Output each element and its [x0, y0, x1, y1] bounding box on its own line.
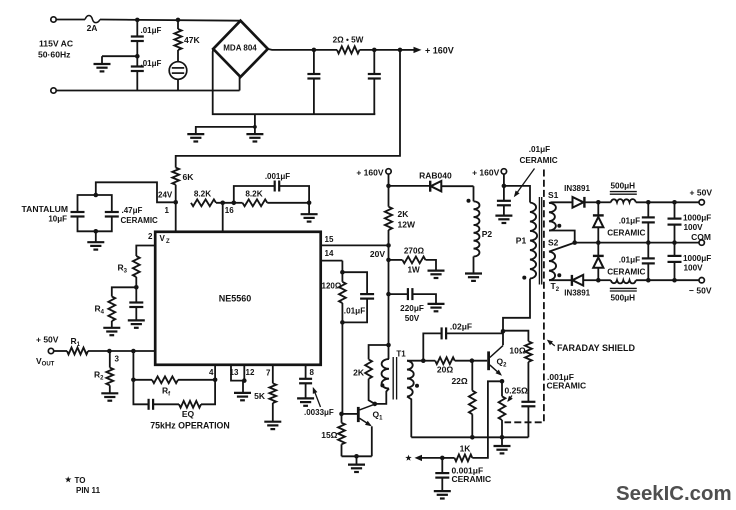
svg-text:14: 14 [325, 249, 334, 258]
svg-text:1W: 1W [407, 266, 420, 275]
svg-text:.01μF: .01μF [619, 256, 640, 265]
svg-text:+ 160V: + 160V [425, 45, 454, 55]
svg-text:NE5560: NE5560 [219, 294, 252, 304]
svg-text:120Ω: 120Ω [322, 281, 342, 290]
svg-text:.01μF: .01μF [141, 59, 162, 68]
svg-text:10μF: 10μF [48, 215, 67, 224]
svg-text:220μF: 220μF [400, 304, 424, 313]
svg-text:2: 2 [148, 232, 153, 241]
svg-text:47K: 47K [184, 35, 201, 45]
svg-text:2K: 2K [353, 368, 365, 378]
svg-text:CERAMIC: CERAMIC [452, 474, 492, 484]
svg-text:8: 8 [310, 368, 315, 377]
svg-text:+ 160V: + 160V [472, 167, 500, 177]
svg-text:.01μF: .01μF [344, 307, 365, 316]
svg-text:TO: TO [75, 476, 86, 485]
svg-text:+ 50V: + 50V [36, 334, 59, 344]
svg-text:.001μF: .001μF [265, 172, 290, 181]
svg-text:.02μF: .02μF [450, 321, 472, 331]
svg-text:.01μF: .01μF [619, 217, 640, 226]
svg-text:Z: Z [166, 239, 170, 245]
svg-text:2A: 2A [87, 23, 98, 33]
svg-text:75kHz OPERATION: 75kHz OPERATION [150, 421, 230, 431]
svg-text:− 50V: − 50V [689, 285, 712, 295]
svg-text:CERAMIC: CERAMIC [607, 228, 645, 237]
svg-text:1K: 1K [460, 443, 472, 453]
svg-text:5K: 5K [254, 391, 266, 401]
svg-text:1: 1 [165, 206, 170, 215]
svg-text:S2: S2 [548, 238, 559, 248]
svg-text:P1: P1 [516, 236, 527, 246]
svg-text:2K: 2K [398, 209, 410, 219]
svg-text:12: 12 [246, 368, 255, 377]
svg-text:1000μF: 1000μF [683, 254, 711, 263]
svg-text:50·60Hz: 50·60Hz [38, 50, 70, 60]
svg-text:V: V [160, 234, 166, 243]
svg-text:12W: 12W [398, 220, 416, 230]
svg-text:7: 7 [266, 369, 271, 378]
svg-text:.47μF: .47μF [122, 206, 143, 215]
svg-text:8.2K: 8.2K [194, 190, 211, 199]
svg-text:SeekIC.com: SeekIC.com [616, 483, 732, 505]
svg-text:CERAMIC: CERAMIC [547, 381, 587, 391]
svg-text:15: 15 [325, 235, 334, 244]
svg-text:CERAMIC: CERAMIC [121, 216, 159, 225]
svg-text:P2: P2 [482, 229, 493, 239]
svg-text:COM: COM [691, 232, 711, 242]
svg-text:FARADAY SHIELD: FARADAY SHIELD [557, 343, 636, 353]
svg-text:+ 160V: + 160V [356, 167, 384, 177]
svg-text:20V: 20V [370, 249, 385, 259]
svg-text:RAB040: RAB040 [419, 171, 452, 181]
svg-text:50V: 50V [405, 314, 420, 323]
svg-text:500μH: 500μH [611, 182, 636, 191]
svg-text:.0033μF: .0033μF [304, 408, 334, 417]
svg-text:2Ω • 5W: 2Ω • 5W [333, 36, 364, 45]
svg-text:10Ω: 10Ω [509, 346, 525, 356]
svg-text:S1: S1 [548, 190, 559, 200]
svg-text:EQ: EQ [182, 409, 195, 419]
svg-text:500μH: 500μH [611, 294, 636, 303]
svg-text:20Ω: 20Ω [437, 365, 453, 375]
svg-text:T1: T1 [396, 349, 406, 358]
svg-text:24V: 24V [158, 191, 173, 200]
svg-text:270Ω: 270Ω [404, 247, 425, 256]
svg-text:22Ω: 22Ω [451, 376, 467, 386]
svg-text:IN3891: IN3891 [564, 288, 590, 297]
svg-text:1000μF: 1000μF [683, 213, 711, 222]
svg-text:PIN 11: PIN 11 [76, 486, 101, 495]
svg-text:4: 4 [209, 368, 214, 377]
svg-text:3: 3 [115, 355, 120, 364]
svg-text:CERAMIC: CERAMIC [519, 156, 557, 165]
svg-text:IN3891: IN3891 [564, 184, 590, 193]
svg-text:0.25Ω: 0.25Ω [505, 385, 529, 395]
svg-text:100V: 100V [684, 223, 704, 232]
svg-text:8.2K: 8.2K [245, 190, 262, 199]
svg-text:6K: 6K [183, 172, 195, 182]
svg-text:MDA 804: MDA 804 [223, 44, 257, 53]
svg-text:.01μF: .01μF [529, 145, 550, 154]
svg-text:15Ω: 15Ω [321, 430, 337, 440]
svg-text:+ 50V: + 50V [690, 187, 713, 197]
svg-text:TANTALUM: TANTALUM [22, 204, 68, 214]
svg-text:100V: 100V [684, 264, 704, 273]
svg-text:16: 16 [225, 206, 234, 215]
svg-text:.01μF: .01μF [141, 26, 162, 35]
svg-text:115V AC: 115V AC [39, 39, 73, 49]
svg-text:CERAMIC: CERAMIC [607, 267, 645, 276]
